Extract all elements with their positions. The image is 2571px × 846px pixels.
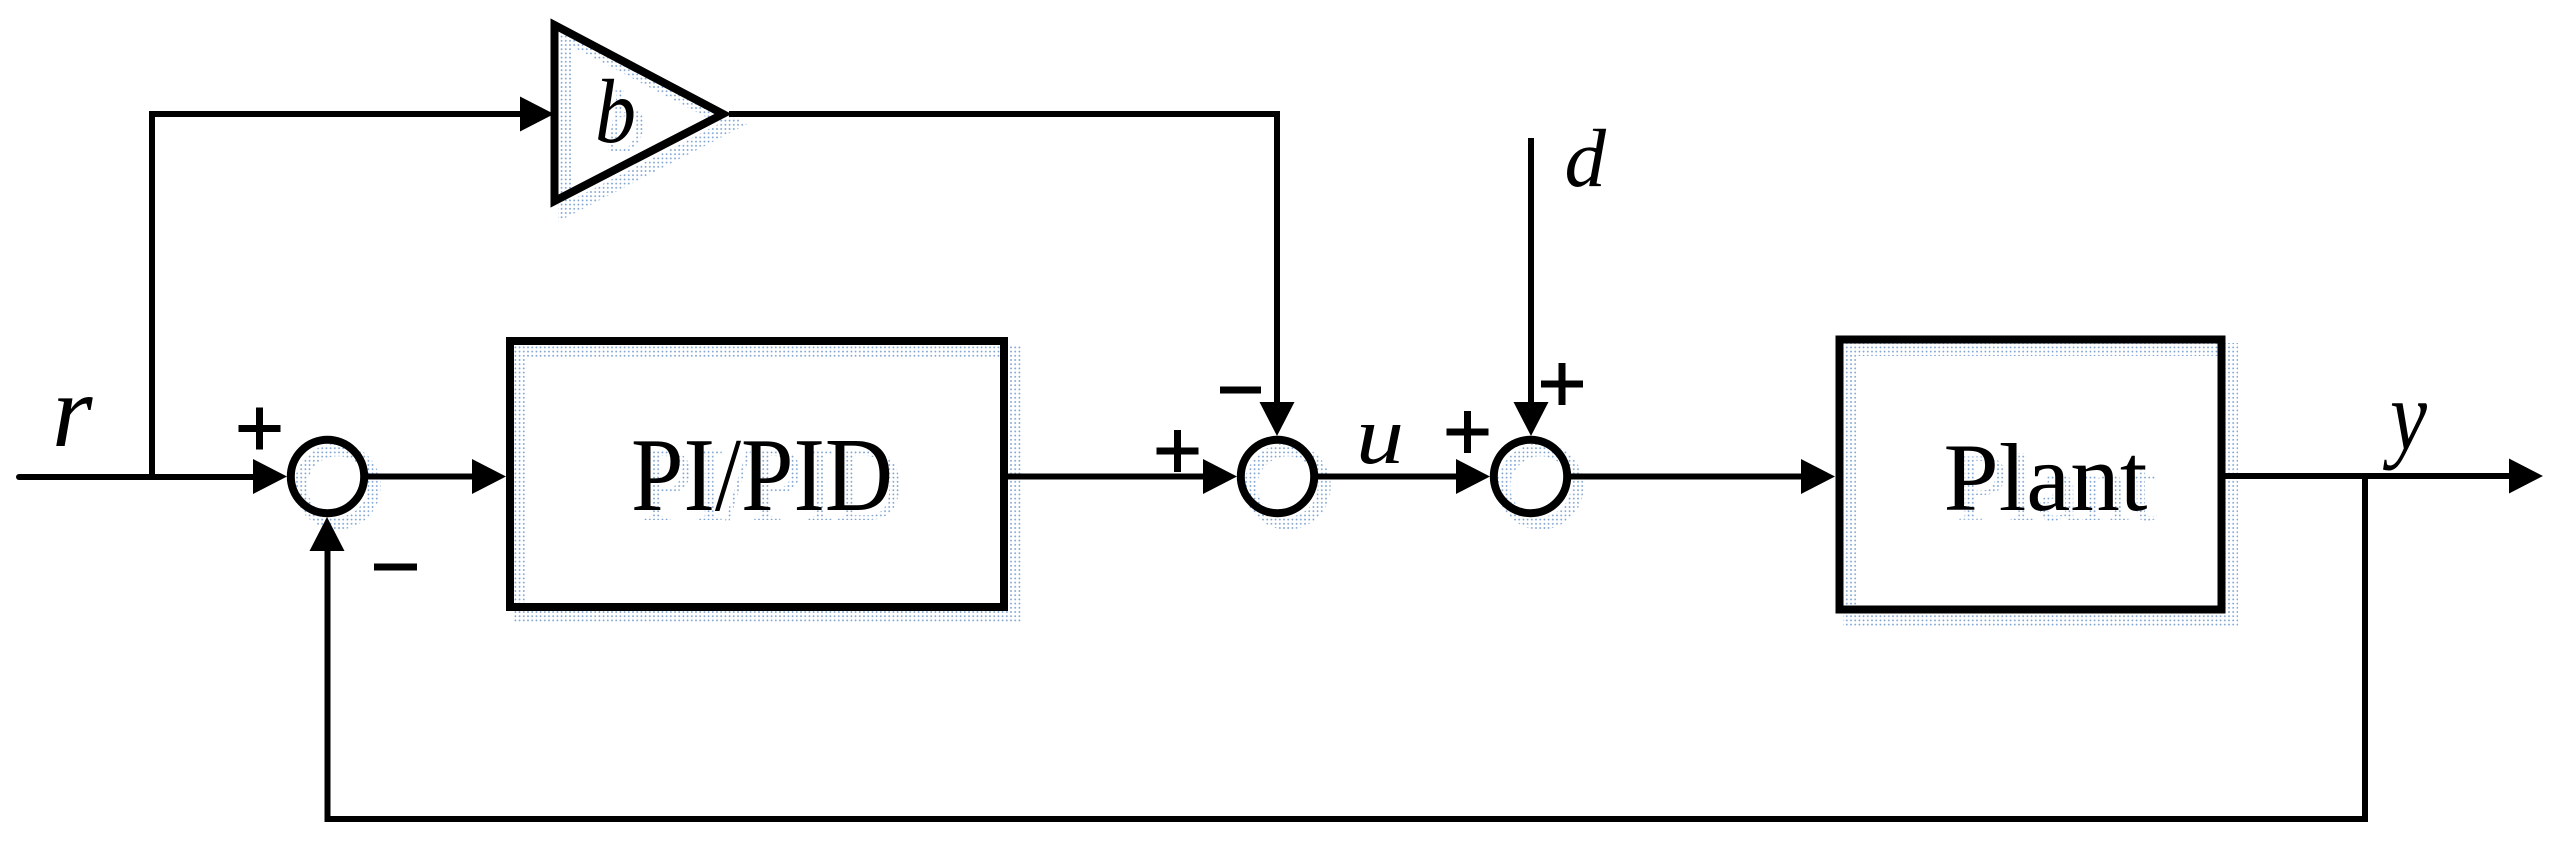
block Plant (1840, 340, 2222, 610)
shape fills (white) (291, 25, 2222, 610)
wire: Plant output (2223, 473, 2511, 479)
summing junction 2 (1241, 440, 1314, 513)
wire: sum2 to sum3 (1314, 474, 1458, 480)
wire: sum3 to Plant (1567, 474, 1803, 480)
wire: b output to corner (729, 111, 1280, 117)
wire: d down into sum3 (1528, 138, 1534, 404)
summing junction 3 (1494, 440, 1567, 513)
arrow into b (520, 97, 554, 132)
svg-text:PI/PID: PI/PID (631, 416, 893, 533)
wire: feedback bottom (325, 816, 2369, 822)
wire: feedback up into sum1 (325, 548, 331, 822)
svg-text:y: y (2382, 360, 2427, 471)
svg-text:Plant: Plant (1944, 424, 2148, 531)
wire: feedback down (2362, 476, 2368, 822)
block PI/PID (510, 341, 1004, 607)
arrow into Plant (1801, 459, 1835, 494)
wire: sum1 to PI/PID (364, 474, 474, 480)
gain triangle b (555, 25, 724, 201)
arrow into sum2 top (1260, 402, 1295, 436)
arrow into sum3 top (1514, 402, 1549, 436)
sign - at sum2 top (1220, 387, 1261, 394)
sign - at sum1 (374, 564, 417, 571)
wire: PI/PID to sum2 (1006, 474, 1205, 480)
wire: r input line (19, 474, 256, 480)
arrowheads (253, 97, 2543, 552)
halftone shadows (301, 35, 2232, 620)
arrow feedback into sum1 bottom (310, 517, 345, 551)
wire: branch up from r line (149, 114, 155, 480)
sign + at sum3 top (1541, 363, 1583, 405)
arrow into sum3 left (1456, 459, 1490, 494)
arrow into sum1 (253, 459, 287, 494)
svg-text:u: u (1356, 389, 1404, 481)
svg-text:b: b (595, 61, 636, 162)
sign + at sum1 (239, 408, 281, 450)
wire: top line to b (149, 111, 522, 117)
svg-text:d: d (1565, 112, 1607, 204)
arrow into PI/PID (472, 459, 506, 494)
arrow y output (2509, 459, 2543, 494)
summing junction 1 (291, 440, 364, 513)
svg-text:r: r (52, 354, 93, 469)
arrow into sum2 left (1203, 459, 1237, 494)
sign + at sum3 left (1447, 411, 1489, 453)
sign + at sum2 left (1157, 430, 1199, 472)
wire: down into sum2 (1274, 111, 1280, 404)
